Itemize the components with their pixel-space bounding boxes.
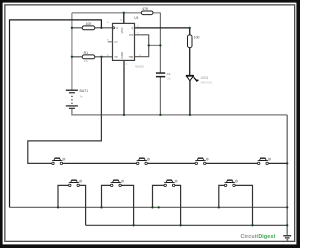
wire row1 segment S2-S3 <box>147 162 195 164</box>
wire output pin3 to LED branch <box>135 28 190 35</box>
junction node D left R2 <box>218 206 220 208</box>
junction node C left R2 <box>151 206 153 208</box>
wire switch D right leg to R3 <box>235 185 252 225</box>
junction node R3 right end <box>286 224 288 226</box>
pin number 2 <box>107 53 109 57</box>
junction node B left R2 <box>100 206 102 208</box>
junction node VCC pin <box>123 12 125 14</box>
pushbutton S2 <box>137 158 150 165</box>
junction node trigger <box>100 56 102 58</box>
wire switch A left leg <box>58 185 69 207</box>
svg-text:BAT1: BAT1 <box>80 89 89 93</box>
resistor 100 (reset) <box>82 22 95 30</box>
junction node A left R2 <box>57 206 59 208</box>
wire row1 segment S3-S4 <box>206 162 258 164</box>
wire row1 segment S1-S2 <box>63 162 137 164</box>
wire battery negative to ground rail <box>72 109 287 115</box>
node CircuitDigest logo <box>241 234 276 240</box>
pin number 5 <box>107 38 109 42</box>
junction node C1 rail <box>159 114 161 116</box>
svg-text:10k: 10k <box>84 59 89 63</box>
wire resistor to LED <box>189 48 191 76</box>
wire switch A right leg to R3 <box>79 185 85 225</box>
resistor 100 (LED series) <box>188 35 200 48</box>
pushbutton S4 <box>258 158 271 165</box>
wire top VCC rail <box>72 12 160 14</box>
svg-text:GND: GND <box>120 51 124 59</box>
pushbutton S6 <box>111 180 124 187</box>
wire GND pin1 drop <box>123 60 125 115</box>
junction node row1 right <box>286 162 288 164</box>
svg-text:R: R <box>116 27 118 30</box>
pin number 7 <box>137 31 139 35</box>
svg-text:NE555: NE555 <box>135 64 144 68</box>
svg-text:100: 100 <box>194 35 200 39</box>
svg-text:CV: CV <box>114 41 118 44</box>
resistor R1 <box>82 51 95 63</box>
wire 100 ohm to reset pin <box>72 27 113 29</box>
junction node output corner <box>189 27 191 29</box>
junction node C1 branch <box>159 44 161 46</box>
junction node R2 bend <box>158 206 160 208</box>
wire C1 bottom to rail <box>159 77 161 115</box>
svg-text:CircuitDigest: CircuitDigest <box>241 234 276 240</box>
pushbutton S3 <box>195 158 208 165</box>
wire row1 segment S4 to right rail <box>268 162 287 164</box>
IC U1 NE555 timer <box>108 16 144 68</box>
svg-text:LED1: LED1 <box>201 76 209 80</box>
pin number 4 <box>107 20 109 24</box>
pin number 8 <box>120 18 122 22</box>
capacitor C1 <box>156 72 172 80</box>
junction node GND rail <box>123 114 125 116</box>
wire switch D left leg <box>219 185 224 207</box>
pushbutton S7 <box>164 180 177 187</box>
wire R1 to trigger pin <box>72 56 113 58</box>
wire switch C left leg <box>153 185 164 207</box>
wire 47K to C1 vertical <box>159 13 161 73</box>
svg-text:VCC: VCC <box>120 26 124 33</box>
wire right vertical to ground <box>286 115 288 235</box>
ground <box>283 235 291 240</box>
wire switch C right leg to R3 <box>175 185 181 225</box>
junction node bracket <box>148 44 150 46</box>
svg-text:R1: R1 <box>84 51 88 55</box>
svg-text:U1: U1 <box>134 16 138 20</box>
junction node D right R3 <box>251 224 253 226</box>
svg-text:10u: 10u <box>167 77 172 81</box>
wire switch B right leg to R3 <box>121 185 134 225</box>
pushbutton S1 <box>52 158 65 165</box>
pushbutton S5 <box>69 180 82 187</box>
battery BAT1 <box>66 89 88 109</box>
pin number 6 <box>139 53 141 57</box>
svg-text:THR: THR <box>128 56 133 59</box>
svg-text:Q: Q <box>131 27 133 30</box>
junction node B right R3 <box>132 224 134 226</box>
resistor 47K <box>141 7 153 15</box>
svg-text:DIS: DIS <box>129 34 133 37</box>
junction node pin4 rail <box>71 27 73 29</box>
wire LED cathode to rail <box>189 81 191 115</box>
junction node C right R3 <box>179 224 181 226</box>
junction node R1 rail <box>71 56 73 58</box>
svg-text:100: 100 <box>86 22 92 26</box>
junction node LED rail <box>189 114 191 116</box>
wire DIS-THR bracket <box>135 35 149 57</box>
pin number 1 <box>126 62 128 66</box>
wire VCC pin8 drop <box>123 13 125 24</box>
wire bracket to C1 link <box>149 44 161 46</box>
wire rail R2 bottom switches <box>10 206 288 208</box>
svg-text:TR: TR <box>114 56 117 59</box>
wire trigger node down to switch row 1 <box>28 57 102 164</box>
wire switch B left leg <box>102 185 111 207</box>
pushbutton S8 <box>224 180 237 187</box>
svg-text:5MM-LED: 5MM-LED <box>201 81 213 85</box>
pin number 3 <box>137 24 139 28</box>
wire battery positive vertical <box>71 13 73 90</box>
svg-text:47K: 47K <box>142 7 149 11</box>
junction node pin4 wire bend <box>100 27 102 29</box>
LED LED1 <box>186 75 212 84</box>
wire rail R3 <box>86 224 288 226</box>
svg-text:C1: C1 <box>167 72 171 76</box>
wire frame loop (pin4 node to left border) <box>10 20 102 208</box>
junction node R2 right end <box>286 206 288 208</box>
